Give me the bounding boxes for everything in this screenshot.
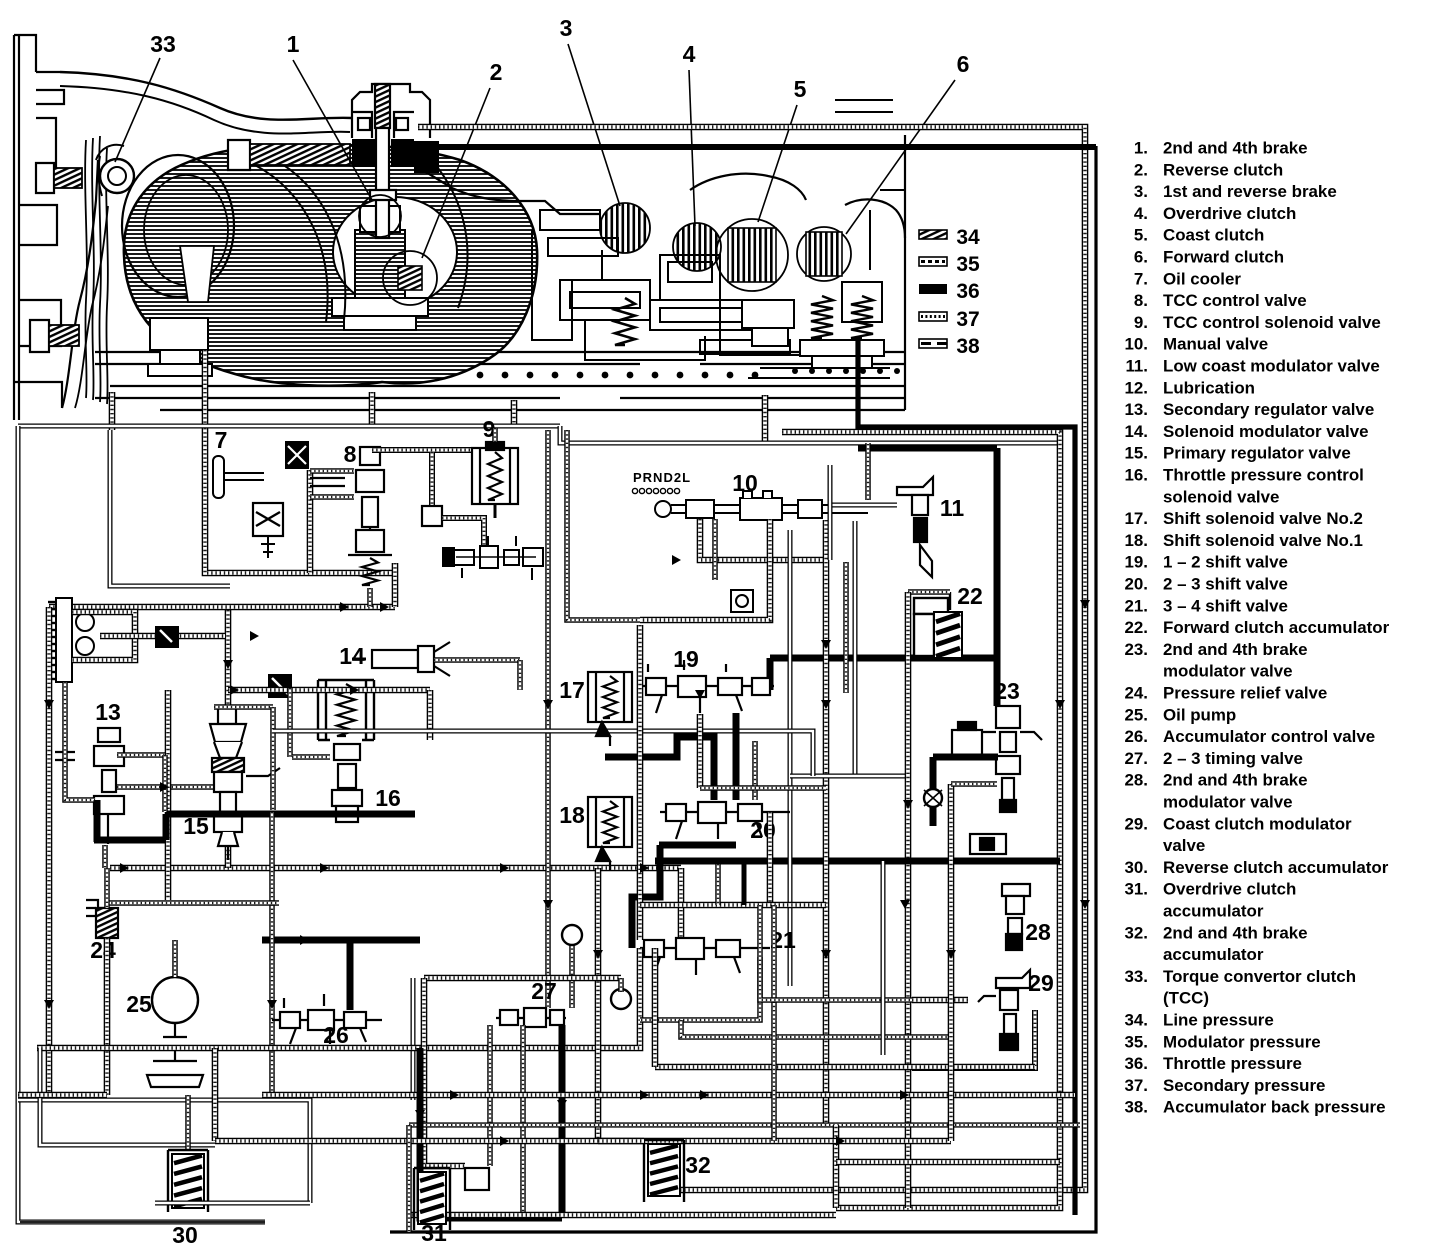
svg-text:14.: 14. [1125,422,1148,441]
svg-text:Shift solenoid valve No.1: Shift solenoid valve No.1 [1163,531,1363,550]
2-3 shift valve 20 [660,802,790,839]
wire: thick x997 down to valve 23 [994,448,1001,706]
wire: mv out1 [700,519,826,560]
transmission case left flange outline [14,35,64,420]
2nd and 4th brake modulator valve 28 [1002,884,1030,950]
svg-text:8.: 8. [1134,291,1148,310]
torque converter left torus circle [122,155,234,297]
wire: x490 drop [487,1025,493,1166]
wire: lube out y636 [100,633,225,640]
wire: y1048 [37,1045,420,1052]
svg-text:PRND2L: PRND2L [633,470,691,485]
legend swatch 38 accumulator back pressure [919,339,947,348]
svg-text:Oil cooler: Oil cooler [1163,269,1241,288]
solenoid modulator valve 14 [352,642,450,676]
coast clutch modulator valve 29 [978,970,1030,1050]
small box bottom-left of 31 [465,1168,489,1190]
svg-text:31: 31 [421,1220,447,1246]
wire: x107 down [104,938,111,1095]
wire: 29 left [912,997,968,1004]
svg-text:modulator valve: modulator valve [1163,662,1293,681]
wire: 8 bottom drop [367,588,373,607]
wire: x165 [162,755,168,812]
svg-text:24: 24 [90,937,116,963]
oil cooler 7 symbol (T) [213,456,264,498]
left lower bolt with hatched shaft [30,320,79,352]
fitting below manual valve [731,590,753,612]
top center bolt tower [352,84,430,138]
wire: lube loop [72,612,135,660]
input shaft vertical [370,84,396,238]
svg-text:Overdrive clutch: Overdrive clutch [1163,204,1296,223]
wire: thick y814 long [166,811,415,818]
wire: outer top border (line pressure main) [418,127,1085,1190]
svg-text:Secondary pressure: Secondary pressure [1163,1076,1325,1095]
wire: 20 down [767,812,774,905]
svg-text:13: 13 [95,699,121,725]
svg-text:37: 37 [956,308,979,331]
svg-text:33: 33 [150,31,176,57]
wire: x395 riser [392,563,399,607]
svg-text:Reverse clutch accumulator: Reverse clutch accumulator [1163,858,1389,877]
wire: drop x514 [511,400,518,428]
filter block above [285,441,309,469]
svg-text:valve: valve [1163,836,1205,855]
svg-text:1st and reverse brake: 1st and reverse brake [1163,182,1337,201]
TCC shuttle valve below 9 [443,536,543,580]
svg-text:1.: 1. [1134,139,1148,158]
wire: box7 right edge [307,470,314,573]
svg-text:7.: 7. [1134,269,1148,288]
manual valve 10 body [655,491,868,520]
wire: x774 [771,905,777,1141]
wire: 21 drop x655 [652,948,659,1067]
svg-text:2nd and 4th brake: 2nd and 4th brake [1163,923,1308,942]
wire: x640 long into 21 [637,625,644,940]
wire: x718 stub [715,864,721,905]
svg-text:Overdrive clutch: Overdrive clutch [1163,880,1296,899]
bolt left of tower with hatched shaft [228,140,350,170]
right gear cluster details [742,300,890,378]
wire: x548 long drop [545,430,551,1008]
wire: x567 drop [567,430,598,620]
svg-text:36: 36 [956,280,979,303]
svg-text:36.: 36. [1125,1054,1148,1073]
svg-text:Coast clutch: Coast clutch [1163,226,1264,245]
svg-text:7: 7 [215,427,228,453]
svg-text:33.: 33. [1125,967,1148,986]
wire: x755 [752,741,758,800]
svg-text:28: 28 [1025,919,1051,945]
wire: 14 out right [434,657,520,663]
wire: 30 feed [185,1095,191,1150]
case line right of tower [416,166,600,214]
svg-text:13.: 13. [1125,400,1148,419]
wire: thick y757 [933,754,998,761]
svg-text:17: 17 [559,677,585,703]
circle 3 (1st and reverse brake) striped [600,203,650,253]
svg-text:4.: 4. [1134,204,1148,223]
wire: x523 drop [520,1025,526,1215]
wire: x272 drop [269,812,275,1095]
2-3 timing valve 27 [496,1008,566,1027]
svg-text:Low coast modulator valve: Low coast modulator valve [1163,357,1380,376]
clutch pack springs in section [615,298,635,345]
wire: 11 left dbl [830,503,897,508]
wire: y788 [700,785,826,791]
svg-text:14: 14 [339,643,365,669]
svg-text:35: 35 [956,253,980,276]
svg-text:Coast clutch modulator: Coast clutch modulator [1163,814,1352,833]
svg-text:Throttle pressure: Throttle pressure [1163,1054,1302,1073]
stator wedge white [180,246,214,302]
svg-text:2nd and 4th brake: 2nd and 4th brake [1163,640,1308,659]
wire: x830 stub [828,465,833,560]
svg-text:17.: 17. [1125,509,1148,528]
svg-text:11: 11 [940,495,965,521]
svg-text:3 – 4 shift valve: 3 – 4 shift valve [1163,596,1288,615]
svg-text:Lubrication: Lubrication [1163,378,1255,397]
svg-text:Throttle pressure control: Throttle pressure control [1163,466,1364,485]
seal boss outline [98,156,102,196]
case bottom horizontal rails [95,135,905,410]
wire: 9 top stub [492,428,498,442]
wire: x413 dbl [411,978,416,1100]
ball check on x933 [924,789,942,807]
case hump over clutch 5 [690,174,806,200]
wire: x598 drop [595,868,602,1141]
wire: mv out3 [712,519,718,580]
svg-text:Oil pump: Oil pump [1163,705,1236,724]
svg-text:Forward clutch accumulator: Forward clutch accumulator [1163,618,1390,637]
svg-text:32.: 32. [1125,923,1148,942]
wire: dbl y731 long [273,731,813,776]
turbine hub internals [332,206,428,330]
svg-text:27.: 27. [1125,749,1148,768]
svg-text:Primary regulator valve: Primary regulator valve [1163,444,1351,463]
svg-text:25.: 25. [1125,705,1148,724]
svg-text:Modulator pressure: Modulator pressure [1163,1032,1321,1051]
wire: x760 loop [760,905,912,1000]
wire: schematic outer thin border [18,424,560,429]
wire: x951 long drop [948,784,955,1141]
shift solenoid valve No.1 (18) [588,797,632,871]
ball check above 27 [562,925,582,945]
legend swatch 36 throttle pressure [919,284,947,294]
3-4 shift valve 21 [640,938,770,975]
svg-text:26: 26 [323,1022,349,1048]
tower seal blocks [352,139,375,167]
gear train cross-section mid block [532,100,905,380]
svg-text:9.: 9. [1134,313,1148,332]
legend swatch 37 secondary pressure [919,312,947,321]
reverse clutch accumulator 30 [168,1150,208,1212]
torque converter inner hub white area [333,197,457,307]
wire: box7 left/bottom [205,428,395,573]
wire: thick staircase 19-20 [605,737,714,800]
wire: 29 loop down [912,1010,1035,1068]
wire: x846 [843,562,849,693]
svg-text:29: 29 [1028,970,1054,996]
pressure relief valve 24 [86,900,118,938]
svg-text:20.: 20. [1125,575,1148,594]
svg-text:6: 6 [957,51,970,77]
wire: left bottom loop [18,1100,310,1203]
wire: x432 drop [429,452,435,506]
wire: thick 19-20 [733,713,740,800]
leader line 3 [568,44,620,206]
wire: thick y861 right half [655,858,1060,865]
wire: long pipe y607 [49,604,395,611]
svg-text:37.: 37. [1125,1076,1148,1095]
wire: second top border dark [420,144,1096,150]
legend swatch 35 modulator pressure [919,257,947,266]
wire: x215 [212,1048,219,1141]
svg-text:16.: 16. [1125,466,1148,485]
oil pan bolt row [477,372,759,379]
svg-text:16: 16 [375,785,401,811]
svg-text:Torque convertor clutch: Torque convertor clutch [1163,967,1356,986]
wire: x228 drop to 13 [225,610,232,730]
wire: 13-15 link y787 [117,784,241,790]
coast clutch spring pair [811,296,833,338]
wire: x520 link [517,660,523,690]
wire: box27 top [424,975,621,982]
svg-text:5.: 5. [1134,226,1148,245]
fitting x280 y686 [268,674,292,698]
wire: y1215 bottom [408,1212,836,1219]
svg-text:30.: 30. [1125,858,1148,877]
wire: dbl y776 [790,774,905,779]
wire: pipe y432 right border down to bottom [782,432,1060,1208]
wire: thick y845 [659,842,736,849]
wire: x681 into 21 [678,868,685,940]
leader line 5 [758,105,797,222]
wire: 13 bottom stub [102,845,108,868]
wire: x836 up [833,1125,840,1208]
wire: thick into 21 [632,845,660,948]
wire: thick y448 [858,445,997,452]
circle 6 (forward clutch) striped [797,227,851,281]
svg-text:38.: 38. [1125,1098,1148,1117]
2nd and 4th brake modulator valve 23 [974,706,1042,812]
svg-text:modulator valve: modulator valve [1163,793,1293,812]
wire: x228 lower [225,728,232,868]
wire: mv out2 [640,519,770,620]
svg-text:solenoid valve: solenoid valve [1163,487,1279,506]
bell housing inner curve [60,86,350,134]
circle 5 (coast clutch) striped [716,219,788,291]
svg-text:28.: 28. [1125,771,1148,790]
svg-text:34: 34 [956,226,980,249]
bell housing outer curve [60,72,352,120]
svg-text:Accumulator control valve: Accumulator control valve [1163,727,1375,746]
svg-text:Forward clutch: Forward clutch [1163,248,1284,267]
wire: left sump box [40,1048,215,1145]
svg-text:31.: 31. [1125,880,1148,899]
wire: y690 run [228,687,430,694]
wire: x290 drop [287,688,293,757]
2nd and 4th brake accumulator 32 [644,1140,684,1202]
wire: 21 bottom loop [640,957,760,1020]
oil strainer below pump [147,1023,203,1087]
ball check x621 [611,989,631,1009]
svg-text:1 – 2 shift valve: 1 – 2 shift valve [1163,553,1288,572]
accumulator control valve 26 [272,994,382,1044]
wire: y1095 long [262,1092,1075,1099]
svg-text:11.: 11. [1125,357,1148,376]
svg-text:accumulator: accumulator [1163,945,1264,964]
wire: 24 stub [104,868,110,908]
circle 2 (reverse clutch) [383,251,437,305]
leader line 1 [293,60,372,200]
flow arrows [120,863,129,873]
wire: thick 13 drop [94,800,101,842]
valve 16 lower spool [332,744,362,822]
wire: thick pipe from clutch 6 down right side [858,340,1075,1215]
wire: 32 feed [598,1138,644,1145]
fitting on lube line [155,626,179,648]
wire: x273 [270,707,276,810]
wire: 7box to 8 upper [310,468,354,474]
wire: x905 drop below 22 [905,592,912,1208]
wire: x855 thin drop [853,521,858,775]
TCC control solenoid valve 9 [472,442,518,518]
wire: thick y840 [94,837,166,844]
wire: drop x372 [369,392,376,428]
wire: 7box to 8 lower [310,494,354,500]
wire: long y868 [110,865,681,872]
wire: thick x562 to bottom [559,1025,566,1218]
wire: fitting to valve W [442,518,484,546]
throttle pressure control solenoid valve 16 outer box [318,680,374,740]
wire: cross-section to schematic drops [109,392,116,430]
fitting under 23 [970,834,1006,854]
wire: thin dbl x110 lube line [110,430,230,586]
wire: thin x790 drop [788,530,793,986]
oil pump 25 [152,977,198,1023]
wire: y903 [107,900,279,906]
svg-text:Pressure relief valve: Pressure relief valve [1163,684,1327,703]
svg-text:18: 18 [559,802,585,828]
wire: drop x765 [762,395,769,443]
wire: thick y940 [262,937,420,944]
svg-text:22.: 22. [1125,618,1148,637]
left upper bolt with hatched shaft [36,163,82,193]
wire: y1095 left [18,1092,107,1099]
svg-text:Shift solenoid valve No.2: Shift solenoid valve No.2 [1163,509,1363,528]
svg-text:8: 8 [344,441,357,467]
svg-text:21.: 21. [1125,596,1148,615]
svg-text:3: 3 [560,15,573,41]
svg-text:35.: 35. [1125,1032,1148,1051]
fitting left of 23 [952,722,982,756]
wire: thick into 26 [347,943,354,1010]
legend swatch 34 line pressure [919,230,947,239]
wire: x49 drop [46,607,53,1095]
lubrication 12 cooler comb [48,598,94,682]
wire: thick stub x770 [767,658,774,690]
leader line 2 [422,88,490,258]
wire: drop x205 [202,350,209,428]
svg-text:18.: 18. [1125,531,1148,550]
circle 1 (2nd and 4th brake) [359,195,401,237]
overdrive clutch accumulator 31 [414,1168,450,1230]
wire: 22 top edge [908,589,950,595]
wire: top step right [560,426,1058,443]
leader line 6 [846,80,955,234]
shift solenoid valve No.2 (17) [588,672,632,746]
low coast modulator valve 11 [897,477,933,577]
wire: thick x933 down [930,757,937,826]
svg-text:(TCC): (TCC) [1163,989,1209,1008]
svg-text:24.: 24. [1125,684,1148,703]
svg-text:1: 1 [287,31,300,57]
wire: 21 left [420,948,640,1048]
primary regulator valve 15 [210,708,280,860]
svg-text:2 – 3 timing valve: 2 – 3 timing valve [1163,749,1303,768]
wire: thick jog [163,814,170,840]
fitting on 8-9 pipe [422,506,442,526]
wire: x883 dbl [881,861,886,1055]
svg-text:30: 30 [172,1222,198,1248]
PRND2L detent dots [632,488,637,493]
wire: bottom thin [20,1221,265,1223]
wire: x826 long drop [823,520,830,1125]
svg-text:Manual valve: Manual valve [1163,335,1268,354]
converter clutch arcs [255,165,328,322]
wire: box27 left [424,978,465,1166]
svg-text:2.: 2. [1134,160,1148,179]
svg-text:accumulator: accumulator [1163,902,1264,921]
wire: thick x744 stub [742,861,747,905]
svg-text:19: 19 [673,646,699,672]
1-2 shift valve 19 [640,660,774,713]
wire: thick y861 to right border [880,858,1060,865]
svg-text:2nd and 4th brake: 2nd and 4th brake [1163,139,1308,158]
TCC control valve 8 body [310,447,392,555]
wire: 19 to 20 [697,714,704,788]
TCC seal rings (33 target) [100,159,134,193]
wire: into 27 b [569,940,575,1008]
wire: y1203 [155,1201,310,1206]
svg-text:38: 38 [956,335,980,358]
svg-text:34.: 34. [1125,1011,1148,1030]
wire: 15 box top [214,704,273,710]
flexplate wavy lines [85,136,108,404]
wire: y620 left stub [598,617,640,623]
svg-text:TCC control valve: TCC control valve [1163,291,1307,310]
svg-text:Accumulator back pressure: Accumulator back pressure [1163,1098,1385,1117]
leader line 4 [689,70,695,226]
wire: hatch link y757 [292,754,330,760]
svg-text:3.: 3. [1134,182,1148,201]
svg-text:4: 4 [683,41,696,67]
svg-text:2 – 3 shift valve: 2 – 3 shift valve [1163,575,1288,594]
cooler bypass valve [253,503,283,558]
wire: 11 to top [865,443,871,500]
wire: y1037 run [681,1020,951,1037]
secondary regulator valve 13 [55,728,124,844]
svg-text:5: 5 [794,76,807,102]
wire: 13 out y755 [117,752,165,758]
wire: 8 to 9 hatch pipe [372,447,478,453]
wire: pump top [172,940,178,977]
svg-text:22: 22 [957,583,983,609]
forward clutch accumulator 22 [914,592,950,656]
svg-text:10.: 10. [1125,335,1148,354]
svg-text:Solenoid modulator valve: Solenoid modulator valve [1163,422,1369,441]
